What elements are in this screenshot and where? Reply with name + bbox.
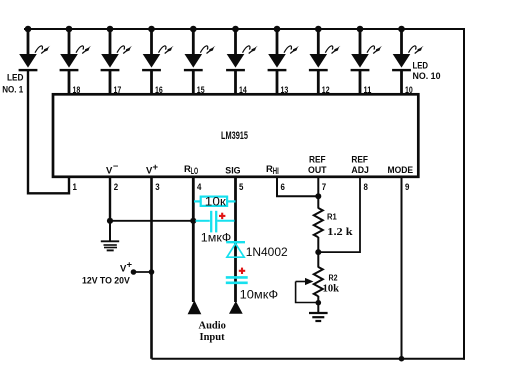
- svg-text:LM3915: LM3915: [221, 130, 248, 142]
- svg-text:SIG: SIG: [225, 165, 240, 176]
- wire: pin 4 column down to audio input: [192, 177, 195, 302]
- svg-text:OUT: OUT: [308, 165, 327, 176]
- svg-text:LO: LO: [191, 166, 198, 177]
- svg-text:6: 6: [281, 182, 285, 193]
- audio input terminal A: [188, 300, 202, 314]
- svg-text:10к: 10к: [205, 194, 227, 208]
- LED D1: [19, 26, 51, 72]
- capacitor C1 1uF (highlighted): [196, 211, 235, 245]
- svg-text:NO. 10: NO. 10: [413, 71, 441, 82]
- svg-text:3: 3: [155, 182, 159, 193]
- svg-text:2: 2: [114, 182, 118, 193]
- wire: V- to R_LO junction: [110, 220, 193, 222]
- svg-text:4: 4: [197, 182, 202, 193]
- node: pin2 junction: [107, 218, 113, 224]
- node: MODE/bottom rail junction: [399, 356, 405, 362]
- svg-text:12V TO 20V: 12V TO 20V: [82, 276, 130, 287]
- ground GND1 (pin2): [101, 221, 119, 250]
- svg-text:Audio: Audio: [199, 320, 226, 331]
- svg-text:MODE: MODE: [388, 165, 414, 176]
- pin numbers bottom row: [73, 182, 410, 193]
- svg-text:ADJ: ADJ: [351, 165, 369, 176]
- wire: right vertical rail: [463, 28, 465, 360]
- svg-text:–: –: [113, 161, 118, 172]
- svg-text:REF: REF: [351, 154, 368, 165]
- node: R2 bottom junction: [316, 300, 322, 306]
- node: REF OUT junction: [315, 193, 321, 199]
- wire: bottom rail: [152, 358, 466, 360]
- potentiometer R2 10k: [296, 252, 340, 303]
- wire: pin 3 (V+) down to bottom rail: [150, 177, 153, 359]
- node: pin4 junction: [190, 218, 196, 224]
- svg-text:1N4002: 1N4002: [246, 245, 288, 259]
- resistor R3 10k (boxed, highlighted): [194, 194, 236, 208]
- pin numbers top row: [73, 85, 413, 96]
- LED D5: [184, 26, 216, 72]
- LED D4: [142, 26, 174, 72]
- ground GND2 (R2): [309, 303, 328, 321]
- label LED NO. 10: [413, 61, 441, 83]
- svg-text:+: +: [127, 260, 133, 271]
- svg-text:10мкФ: 10мкФ: [240, 288, 279, 302]
- wire: top supply bus: [24, 28, 464, 30]
- svg-text:REF: REF: [309, 154, 326, 165]
- svg-text:NO. 1: NO. 1: [2, 85, 24, 96]
- svg-text:R1: R1: [327, 213, 337, 222]
- label Audio Input: [199, 320, 226, 343]
- svg-text:R2: R2: [329, 274, 338, 283]
- svg-text:5: 5: [239, 182, 244, 193]
- LED D2: [60, 26, 92, 72]
- LED D8: [309, 26, 341, 72]
- LED D7: [268, 26, 300, 72]
- LED D10: [392, 26, 424, 72]
- svg-text:LED: LED: [7, 73, 24, 84]
- svg-text:V: V: [106, 165, 113, 176]
- LED D9: [351, 26, 383, 72]
- svg-text:8: 8: [364, 182, 368, 193]
- LED D6: [226, 26, 258, 72]
- svg-text:1: 1: [73, 182, 78, 193]
- svg-text:10k: 10k: [323, 283, 340, 294]
- svg-text:HI: HI: [273, 166, 279, 177]
- wire: pin 9 MODE down to bottom rail: [401, 177, 403, 359]
- IC pin-function labels: [106, 154, 413, 176]
- label LED NO. 1: [2, 73, 24, 96]
- wire: pin 5 column down to audio input: [234, 177, 237, 302]
- wire: pin 7 down to R1: [317, 177, 319, 209]
- capacitor C2 10uF (highlighted): [226, 268, 278, 302]
- svg-text:9: 9: [405, 182, 409, 193]
- svg-text:+: +: [153, 162, 159, 173]
- wire: LED2-10 cathodes to IC top pins: [69, 70, 402, 96]
- svg-text:Input: Input: [200, 332, 226, 343]
- IC U1 LM3915 body: [53, 94, 418, 177]
- LED D3: [101, 26, 133, 72]
- wire: pin 2 (V-) down: [109, 177, 111, 221]
- resistor R1 1.2k: [314, 208, 353, 252]
- wire: pin 8 REF ADJ to R1/R2 junction: [318, 177, 360, 252]
- wire: pin 6 R_HI to pin 7: [277, 177, 318, 196]
- node: R1/R2 junction: [315, 249, 321, 255]
- audio input terminal B: [229, 301, 243, 314]
- wire: pin 1 to LED1 cathode: [28, 70, 69, 193]
- V+ supply terminal: [82, 260, 154, 287]
- svg-text:LED: LED: [413, 61, 429, 72]
- svg-text:1.2 k: 1.2 k: [327, 227, 352, 238]
- svg-text:7: 7: [322, 182, 326, 193]
- diode D11 1N4002 (highlighted): [226, 242, 288, 259]
